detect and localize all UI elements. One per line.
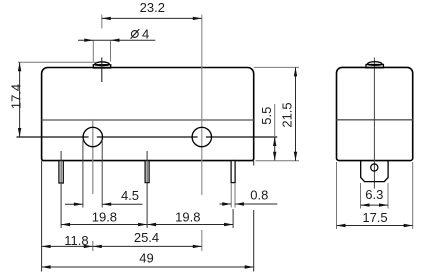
body mid line: [42, 119, 254, 121]
terminal pin 2: [145, 161, 149, 183]
side terminal hole: [371, 164, 378, 171]
49 extension right: [253, 161, 255, 272]
svg-text:19.8: 19.8: [175, 209, 200, 224]
dimension 5.5: [259, 104, 276, 161]
hole 1 centerline: [92, 119, 94, 251]
mounting hole 1: [83, 127, 102, 146]
pin 3 centerline lower: [232, 209, 234, 228]
body top extension right: [254, 66, 299, 68]
svg-text:21.5: 21.5: [280, 102, 295, 127]
dimension 21.5: [280, 67, 298, 160]
dimension 49: [42, 250, 254, 268]
terminal pin 1: [59, 161, 63, 183]
svg-text:4: 4: [142, 27, 149, 42]
hole 2 centerline / 23.2 extension: [201, 15, 203, 252]
dimension 0.8: [220, 183, 278, 208]
pin 1 centerline: [60, 151, 62, 228]
49 extension left: [41, 161, 43, 272]
svg-text:0.8: 0.8: [250, 187, 268, 202]
dimension ø4: [78, 27, 155, 62]
dimension 17.4: [8, 62, 23, 137]
dimension 4.5: [65, 140, 143, 208]
dimension 17.5: [337, 162, 413, 229]
svg-text:17.4: 17.4: [8, 84, 23, 109]
button horizontal centerline / 17.4 top extension: [18, 61, 97, 63]
side view mid line: [337, 119, 413, 121]
pin 2 centerline: [146, 151, 148, 228]
dimension 25.4: [93, 230, 202, 248]
svg-text:23.2: 23.2: [140, 0, 165, 15]
plunger button left view: [93, 62, 110, 68]
body side view: [337, 67, 413, 160]
svg-text:25.4: 25.4: [134, 230, 159, 245]
hole axis line: [17, 136, 278, 138]
dimension 23.2: [102, 0, 202, 29]
svg-text:5.5: 5.5: [259, 107, 274, 125]
body left view: [42, 68, 254, 161]
terminal pin 3: [231, 161, 235, 183]
dimension 19.8 right: [147, 209, 233, 226]
side view centerline: [373, 58, 375, 189]
dimension 19.8 left: [61, 210, 147, 227]
svg-text:19.8: 19.8: [92, 210, 117, 225]
body bottom extension right: [256, 160, 300, 162]
svg-text:4.5: 4.5: [121, 188, 139, 203]
dimension 6.3: [361, 183, 389, 209]
svg-text:49: 49: [139, 250, 153, 265]
dimension 11.8: [42, 233, 93, 248]
button centerline vertical: [101, 58, 103, 83]
side terminal: [361, 161, 388, 182]
svg-text:17.5: 17.5: [362, 210, 387, 225]
svg-text:6.3: 6.3: [365, 187, 383, 202]
plunger button side view: [366, 62, 383, 68]
svg-text:11.8: 11.8: [64, 233, 88, 248]
mounting hole 2: [192, 127, 211, 146]
